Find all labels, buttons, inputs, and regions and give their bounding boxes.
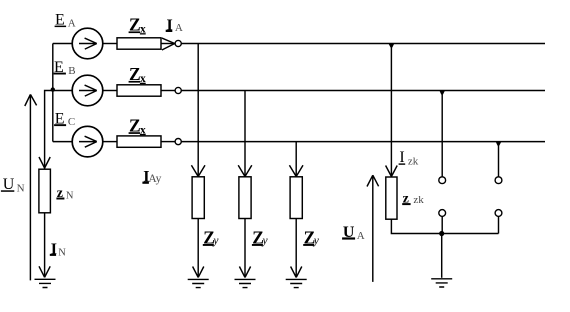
wire Zx B to terminal B [161, 90, 175, 92]
wire phase A down to Z_zk [390, 44, 392, 178]
resistor Z_N [39, 169, 51, 213]
wire Zx C to terminal C [161, 141, 175, 143]
arrow at ground Z_y3 [291, 267, 302, 278]
load branch Z_y3 wire from phase C [295, 142, 297, 177]
arrow I_N at ground [39, 266, 50, 277]
label Zx A [129, 15, 146, 36]
wire phase B down to switch 1 [441, 91, 443, 177]
source E_A [72, 28, 103, 59]
label Z_y3 [303, 227, 320, 247]
ground Z_y1 [188, 279, 209, 287]
wire source C to Zx C [103, 141, 117, 143]
node star point [51, 87, 55, 91]
label Z_y1 [203, 227, 220, 247]
svg-text:A: A [68, 18, 76, 30]
label I_A [166, 17, 183, 34]
label I_Ay [142, 169, 161, 186]
label E_C [54, 111, 75, 129]
wire bus phase C [181, 141, 545, 143]
label U_A [342, 224, 365, 242]
svg-text:A: A [175, 22, 183, 34]
arrow U_A [367, 175, 379, 282]
source E_B [72, 75, 103, 106]
label E_A [55, 12, 76, 30]
ground Z_y2 [235, 279, 256, 287]
label Z_y2 [252, 227, 269, 247]
wire source B to Zx B [103, 90, 117, 92]
svg-text:N: N [58, 247, 66, 258]
node tap C for switch [496, 142, 501, 146]
arrow into Z_N [39, 157, 50, 168]
wire Zx A to terminal A with current arrow I_A [161, 43, 175, 45]
node tap B for switch [440, 91, 445, 95]
svg-text:C: C [68, 116, 75, 128]
svg-text:zk: zk [413, 194, 424, 206]
ground neutral [35, 279, 56, 287]
wire bus phase A [181, 43, 545, 45]
svg-text:y: y [262, 235, 269, 247]
arrow into Z_y2 [238, 165, 252, 176]
source E_C [72, 126, 103, 157]
wire bus phase B [181, 90, 545, 92]
wire Z_zk down and across [391, 219, 498, 233]
load branch Z_y2 wire from phase B [244, 91, 246, 178]
svg-text:zk: zk [408, 155, 419, 167]
ground Z_y3 [286, 279, 307, 287]
resistor Z_y1 [192, 177, 204, 219]
label E_B [54, 59, 76, 77]
wire switch B to node [441, 216, 443, 233]
arrow U_N [25, 94, 37, 280]
label z_zk [402, 191, 424, 206]
node terminal C [175, 139, 181, 145]
wire Z_y3 to ground [295, 219, 297, 278]
wire Z_y1 to ground [197, 219, 199, 278]
resistor Z_y2 [239, 177, 251, 219]
switch contact top C [495, 177, 502, 184]
label I_N [50, 241, 66, 258]
load branch Z_y1 wire from phase A [197, 44, 199, 178]
wire node to ground [441, 234, 443, 278]
switch contact top B [439, 177, 446, 184]
label I_zk [399, 149, 419, 167]
wire Z_y2 to ground [244, 219, 246, 278]
wire switch C to node [498, 216, 500, 233]
arrow into Z_y1 [191, 165, 205, 176]
svg-text:N: N [66, 190, 74, 201]
wire left star bus [52, 44, 54, 142]
label Zx C [129, 115, 146, 136]
wire phase C down to switch 2 [498, 142, 500, 177]
wire bus to source C [53, 141, 72, 143]
resistor Zx phase A [117, 38, 161, 49]
resistor Zx phase C [117, 136, 161, 147]
arrow at ground Z_y1 [193, 267, 204, 278]
node tap A for Z_zk [389, 44, 395, 48]
arrow into Z_y3 [289, 165, 303, 176]
svg-text:A: A [357, 230, 365, 242]
label Zx B [129, 64, 146, 85]
node terminal B [175, 87, 181, 93]
resistor Z_y3 [290, 177, 302, 219]
svg-text:y: y [313, 235, 320, 247]
wire bus to source A [53, 43, 72, 45]
wire neutral jog [45, 91, 53, 170]
arrow I_zk into Z_zk [386, 166, 398, 177]
arrow at ground Z_y2 [239, 267, 250, 278]
wire Z_N to ground [44, 213, 46, 278]
svg-text:U: U [3, 176, 15, 193]
switch contact bottom C [495, 210, 502, 217]
svg-text:Ay: Ay [148, 173, 161, 185]
node fault common [439, 231, 444, 236]
svg-text:N: N [17, 183, 25, 195]
svg-text:y: y [212, 235, 219, 247]
wire source A to Zx A [103, 43, 117, 45]
resistor Zx phase B [117, 85, 161, 96]
svg-text:B: B [68, 65, 75, 77]
resistor Z_zk [386, 177, 397, 219]
ground fault [431, 279, 452, 287]
label z_N [56, 186, 74, 202]
switch contact bottom B [439, 210, 446, 217]
label U_N [1, 176, 25, 195]
wire bus to source B [53, 90, 72, 92]
node terminal A [175, 40, 181, 46]
